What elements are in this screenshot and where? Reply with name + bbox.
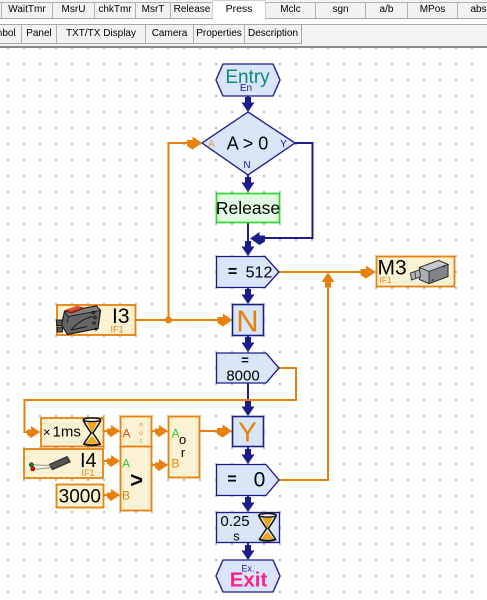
svg-text:IF1: IF1 <box>380 275 393 285</box>
svg-text:Release: Release <box>216 198 280 218</box>
svg-text:s: s <box>233 529 240 544</box>
svg-text:B: B <box>171 457 179 471</box>
svg-text:1ms: 1ms <box>53 424 81 441</box>
svg-text:IF1: IF1 <box>82 468 95 478</box>
svg-text:3000: 3000 <box>59 487 101 508</box>
svg-text:N: N <box>243 160 250 171</box>
svg-text:n: n <box>139 422 143 429</box>
svg-text:A: A <box>208 139 215 150</box>
svg-text:512: 512 <box>246 265 273 282</box>
svg-text:0: 0 <box>254 469 266 492</box>
svg-text:A > 0: A > 0 <box>227 134 269 154</box>
svg-text:IF1: IF1 <box>111 325 124 335</box>
svg-text:A: A <box>122 426 130 440</box>
svg-text:En: En <box>240 83 252 94</box>
svg-text:r: r <box>181 445 186 460</box>
svg-text:t: t <box>140 438 142 445</box>
svg-text:B: B <box>122 489 130 503</box>
svg-text:Y: Y <box>280 139 287 150</box>
svg-text:Y: Y <box>238 417 257 448</box>
svg-text:=: = <box>227 471 236 488</box>
svg-text:>: > <box>130 468 143 493</box>
svg-text:o: o <box>139 430 143 437</box>
svg-text:=: = <box>228 264 237 281</box>
svg-text:Exit: Exit <box>230 569 268 592</box>
svg-text:8000: 8000 <box>226 368 259 385</box>
svg-text:×: × <box>43 425 51 440</box>
svg-text:N: N <box>236 304 258 339</box>
svg-text:A: A <box>122 457 130 471</box>
svg-text:0.25: 0.25 <box>220 513 249 530</box>
svg-text:=: = <box>241 353 249 368</box>
